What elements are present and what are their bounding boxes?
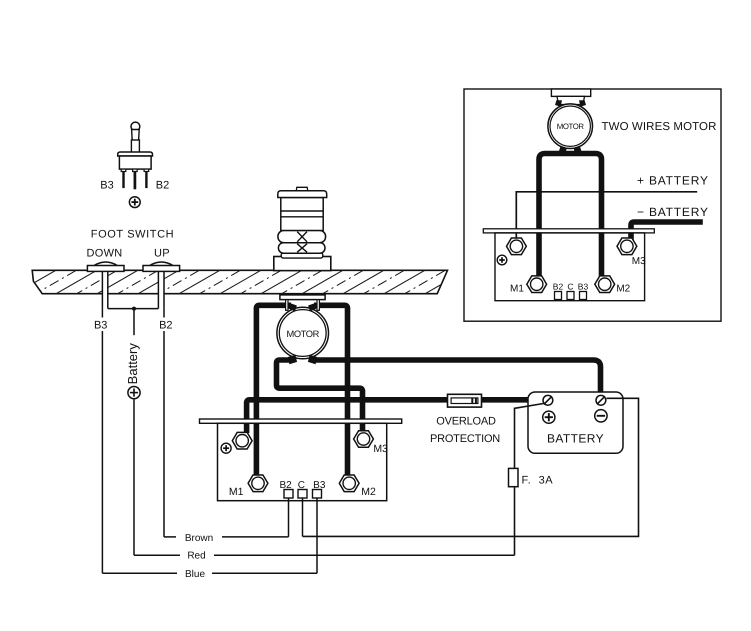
svg-text:− BATTERY: − BATTERY [637,205,709,219]
svg-text:M3: M3 [632,256,646,267]
svg-text:Battery: Battery [125,343,140,385]
svg-text:C: C [567,282,573,292]
svg-text:B3: B3 [578,282,589,292]
svg-text:BATTERY: BATTERY [547,432,604,446]
svg-text:Blue: Blue [185,569,205,580]
svg-text:B2: B2 [159,319,172,331]
svg-text:B2: B2 [156,180,169,192]
svg-text:MOTOR: MOTOR [286,329,319,339]
svg-text:TWO WIRES MOTOR: TWO WIRES MOTOR [602,121,717,133]
svg-text:+ BATTERY: + BATTERY [637,174,709,188]
svg-text:DOWN: DOWN [86,247,122,259]
svg-text:B3: B3 [94,319,107,331]
svg-text:OVERLOAD: OVERLOAD [436,416,496,428]
svg-text:M1: M1 [510,284,524,295]
svg-text:Red: Red [187,550,205,561]
svg-text:M1: M1 [229,486,244,498]
svg-text:M3: M3 [373,443,388,455]
svg-text:F. 3A: F. 3A [522,475,554,487]
svg-text:FOOT SWITCH: FOOT SWITCH [91,228,174,240]
svg-text:PROTECTION: PROTECTION [430,433,500,445]
svg-text:M2: M2 [361,486,376,498]
svg-text:M2: M2 [616,284,630,295]
svg-text:Brown: Brown [185,533,213,544]
svg-text:MOTOR: MOTOR [557,122,585,131]
svg-text:B2: B2 [553,282,564,292]
svg-text:UP: UP [154,247,170,259]
svg-text:B3: B3 [100,180,113,192]
